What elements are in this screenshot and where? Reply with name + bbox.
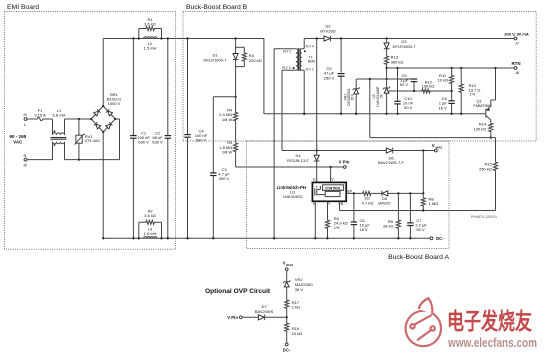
V pin row: [236, 166, 344, 168]
svg-text:RS3JB 13-F: RS3JB 13-F: [287, 158, 309, 163]
resistor R1 3.6 kOhm (parallel branch over L2): [138, 29, 140, 39]
zener VR1 20 V: [355, 79, 357, 88]
FB pin wire: [339, 201, 341, 210]
svg-text:1000 V: 1000 V: [108, 101, 121, 106]
wire J1 to F1: [27, 118, 37, 120]
transistor Q1 FMMT560 (PNP): [485, 109, 487, 118]
resistor R8 1 MOhm: [421, 193, 425, 210]
terminal DC-: [430, 237, 433, 240]
svg-text:V Pin: V Pin: [227, 315, 238, 320]
svg-text:VAC: VAC: [13, 139, 23, 144]
resistor R7 4.7 kOhm: [362, 191, 372, 195]
S pin wire: [314, 201, 316, 238]
terminal V_BIAS: [434, 149, 437, 152]
bridge diode top-left: [94, 109, 101, 116]
common-mode choke L1 6.8 mH: [52, 119, 54, 135]
svg-text:1/8 W: 1/8 W: [222, 117, 233, 122]
capacitor C1 100 nF 630 V: [132, 39, 134, 136]
svg-text:3.6 kΩ: 3.6 kΩ: [144, 213, 156, 218]
svg-text:V: V: [432, 143, 435, 148]
terminal V Pin: [343, 166, 346, 169]
svg-text:N: N: [24, 153, 27, 158]
diode D5 BAV20: [382, 191, 388, 196]
svg-text:Buck-Boost Board A: Buck-Boost Board A: [388, 254, 449, 261]
svg-text:200 V, 90 mA: 200 V, 90 mA: [504, 32, 529, 37]
IC U1 LinkSwitch-PH LNK4190G: [312, 182, 346, 201]
bridge diode top-right: [106, 109, 113, 116]
bridge rectifier BR1 B10S-G 1000 V: [102, 39, 104, 107]
svg-text:www.elecfans.com: www.elecfans.com: [447, 335, 537, 350]
inductor L2 1.5 mH (in top rail): [144, 37, 158, 39]
capacitor C10 10 nF 50 V: [396, 67, 398, 69]
svg-text:BP: BP: [347, 189, 352, 193]
watermark elecfans logo circle: [406, 298, 441, 346]
svg-text:3.15 A: 3.15 A: [34, 113, 46, 118]
wire top rail corner down to return rail: [263, 39, 265, 114]
inductor L3 1.5 mH (in bottom rail): [144, 237, 158, 239]
svg-text:DFLR1600-7: DFLR1600-7: [204, 58, 228, 63]
fuse F1 3.15 A: [37, 118, 42, 121]
wire output rail down to D4 (drain branch): [316, 37, 318, 39]
svg-text:BIAS: BIAS: [436, 145, 443, 149]
svg-text:4.7 kΩ: 4.7 kΩ: [362, 201, 374, 206]
bridge diode bottom-right: [106, 122, 113, 129]
RTN rail: [385, 67, 387, 69]
wire bridge right to N line: [115, 118, 119, 120]
resistor R12 100 kOhm: [420, 89, 432, 93]
bridge diode bottom-left: [94, 122, 101, 129]
varistor RV1 275 VAC: [78, 119, 80, 135]
svg-text:LNK4190G: LNK4190G: [283, 194, 303, 199]
resistor R9 28 kOhm: [397, 193, 399, 219]
wire FLY3 down to D4/D6 row: [281, 70, 283, 150]
transformer T1 RM6: [296, 49, 298, 71]
resistor R16 10 kOhm: [285, 317, 289, 337]
wire J2 to L1: [27, 159, 53, 161]
svg-text:V: V: [283, 261, 286, 266]
diode D2 BYV26D: [324, 36, 330, 41]
svg-text:250 kΩ: 250 kΩ: [479, 166, 492, 171]
svg-text:FLY 2: FLY 2: [283, 50, 291, 54]
node OVP divider: [286, 316, 288, 318]
svg-text:CONTROL: CONTROL: [325, 186, 341, 190]
svg-text:3.6 kΩ: 3.6 kΩ: [144, 22, 156, 27]
svg-text:20 V: 20 V: [351, 93, 355, 101]
svg-text:EMI Board: EMI Board: [7, 4, 39, 11]
svg-text:1%: 1%: [334, 225, 340, 230]
svg-text:100 kΩ: 100 kΩ: [422, 84, 435, 89]
capacitor C7 2.2 uF 50 V: [409, 193, 411, 223]
svg-text:50 V: 50 V: [416, 227, 425, 232]
capacitor C5 47 uF 250 V: [340, 37, 342, 39]
zener VR2 MAZS360 36 V: [286, 271, 288, 282]
pin FLY4: [302, 48, 304, 50]
capacitor C3 4.7 uF 400 V: [213, 96, 235, 98]
U2 ref line to divider row: [389, 90, 452, 92]
svg-text:16 V: 16 V: [439, 105, 448, 110]
svg-text:50 V: 50 V: [400, 82, 409, 87]
node: D1 bottom / C3 top: [234, 96, 236, 98]
EMI Board dashed outline: [5, 12, 176, 250]
svg-text:Optional OVP Circuit: Optional OVP Circuit: [205, 288, 271, 295]
resistor R14 130 kOhm: [490, 120, 492, 122]
terminal J1: [24, 118, 27, 121]
pin FLY1: [302, 69, 304, 71]
svg-text:BIAS: BIAS: [286, 263, 293, 267]
svg-text:1%: 1%: [470, 92, 476, 97]
svg-text:DC-: DC-: [436, 236, 444, 241]
svg-text:BAV20WS: BAV20WS: [255, 309, 274, 314]
svg-text:50 V: 50 V: [404, 105, 413, 110]
resistor R17 1 kOhm: [285, 299, 289, 309]
capacitor C2 68 nF 630 V: [167, 39, 169, 136]
resistor R15 250 kOhm: [495, 138, 497, 162]
resistor R6 24.9 kOhm 1%: [327, 201, 329, 219]
svg-text:6.8 mH: 6.8 mH: [53, 113, 66, 118]
svg-text:36 V: 36 V: [295, 287, 304, 292]
diode D4 RS3JB 13-F: [316, 149, 318, 151]
svg-text:PH4670-120911: PH4670-120911: [471, 215, 497, 219]
svg-text:FLY 3: FLY 3: [282, 66, 290, 70]
resistor R3 220 kOhm: [236, 46, 245, 48]
wire top rail right segment after D2: [331, 38, 514, 40]
svg-text:V Pin: V Pin: [339, 160, 350, 165]
svg-text:BYV26D: BYV26D: [320, 28, 335, 33]
svg-text:1 MΩ: 1 MΩ: [429, 201, 439, 206]
shunt regulator U2 LMV431AIMF: [386, 79, 388, 88]
svg-text:630 V: 630 V: [138, 140, 149, 145]
terminal DC- (OVP): [285, 343, 288, 346]
svg-text:1/8 W: 1/8 W: [222, 149, 233, 154]
Buck-Boost Board A dashed outline: [247, 141, 450, 249]
wire top rail input segment: [103, 38, 264, 40]
diode D6 BAV21WS-7-F: [386, 148, 392, 153]
svg-text:360 kΩ: 360 kΩ: [391, 59, 404, 64]
svg-text:BAV20: BAV20: [378, 201, 391, 206]
wire L1 to bridge (bottom): [65, 159, 120, 161]
capacitor C4 100 nF 500 V: [187, 39, 189, 135]
svg-text:1%: 1%: [380, 94, 384, 99]
svg-text:1 kΩ: 1 kΩ: [292, 305, 300, 310]
svg-text:275 VAC: 275 VAC: [85, 138, 101, 143]
svg-text:400 V: 400 V: [219, 176, 230, 181]
svg-text:10 kΩ: 10 kΩ: [438, 78, 449, 83]
terminal J8 RTN: [514, 67, 517, 70]
wire bottom DC- rail: [103, 237, 430, 239]
sense row node: [385, 78, 387, 80]
svg-text:250 V: 250 V: [324, 75, 335, 80]
diode D1 DFLR1600-7 with parallel R3: [234, 37, 236, 39]
capacitor C6 10 uF 16 V: [353, 193, 355, 221]
svg-text:130 kΩ: 130 kΩ: [473, 126, 486, 131]
resistor R10 13.7 Ohm 1%: [460, 67, 462, 69]
svg-text:16 V: 16 V: [360, 227, 369, 232]
wire return rail: [264, 113, 486, 115]
wire R5 to V-pin row: [235, 152, 237, 167]
svg-text:RTN: RTN: [511, 61, 520, 66]
svg-text:DC-: DC-: [283, 348, 291, 353]
wire R14 bottom to sense node: [370, 137, 496, 139]
svg-text:1.5 mH: 1.5 mH: [144, 231, 157, 236]
BP pin wire: [346, 192, 362, 194]
diode D3 DFLR1600-7: [385, 37, 387, 39]
svg-text:电子发烧友: 电子发烧友: [447, 308, 532, 334]
svg-text:1.5 mH: 1.5 mH: [144, 46, 157, 51]
resistor R2 3.6 kOhm (parallel branch over L3): [138, 222, 140, 238]
wire F1 to L1: [43, 118, 53, 120]
svg-text:220 kΩ: 220 kΩ: [249, 58, 262, 63]
svg-text:28 kΩ: 28 kΩ: [383, 224, 394, 229]
output terminal J7 200 V, 90 mA: [514, 37, 517, 40]
svg-text:630 V: 630 V: [152, 140, 163, 145]
resistor R4 2.0 MOhm 1/8 W: [235, 97, 237, 112]
resistor R5 1.8 MOhm 1/8 W: [234, 142, 238, 152]
wire top rail output segment (FLY4 to D2): [304, 38, 324, 40]
capacitor C9 1 uF 50 V: [411, 78, 417, 80]
svg-text:Buck-Boost Board B: Buck-Boost Board B: [186, 4, 248, 11]
svg-text:FMMT560: FMMT560: [473, 103, 492, 108]
svg-text:10 kΩ: 10 kΩ: [292, 331, 303, 336]
svg-text:FLY 4: FLY 4: [306, 45, 314, 49]
svg-text:BAV21WS-7-F: BAV21WS-7-F: [378, 160, 404, 165]
Buck-Boost Board B dashed outline: [183, 12, 536, 142]
pin FLY2: [274, 48, 296, 50]
wire V_BIAS down to BP row: [422, 149, 424, 151]
resistor R13 360 kOhm: [385, 54, 389, 67]
svg-text:FLY 1: FLY 1: [306, 67, 314, 71]
terminal J2: [24, 158, 27, 161]
wire FLY2 down to DC- rail: [273, 49, 275, 239]
svg-text:DFLR1600-7: DFLR1600-7: [393, 44, 417, 49]
wire V pin to U1: [330, 167, 332, 182]
wire L1 to bridge (top): [65, 118, 92, 120]
svg-text:RM6: RM6: [308, 59, 315, 63]
svg-text:500 V: 500 V: [196, 138, 207, 143]
pin FLY3: [282, 69, 296, 71]
svg-text:D: D: [313, 178, 316, 182]
capacitor C8 1 uF 16 V: [451, 91, 453, 100]
resistor R11 10 kOhm: [450, 67, 452, 69]
diode D7 BAV20WS: [258, 315, 264, 320]
wire bridge bottom to DC- rail: [102, 132, 104, 238]
